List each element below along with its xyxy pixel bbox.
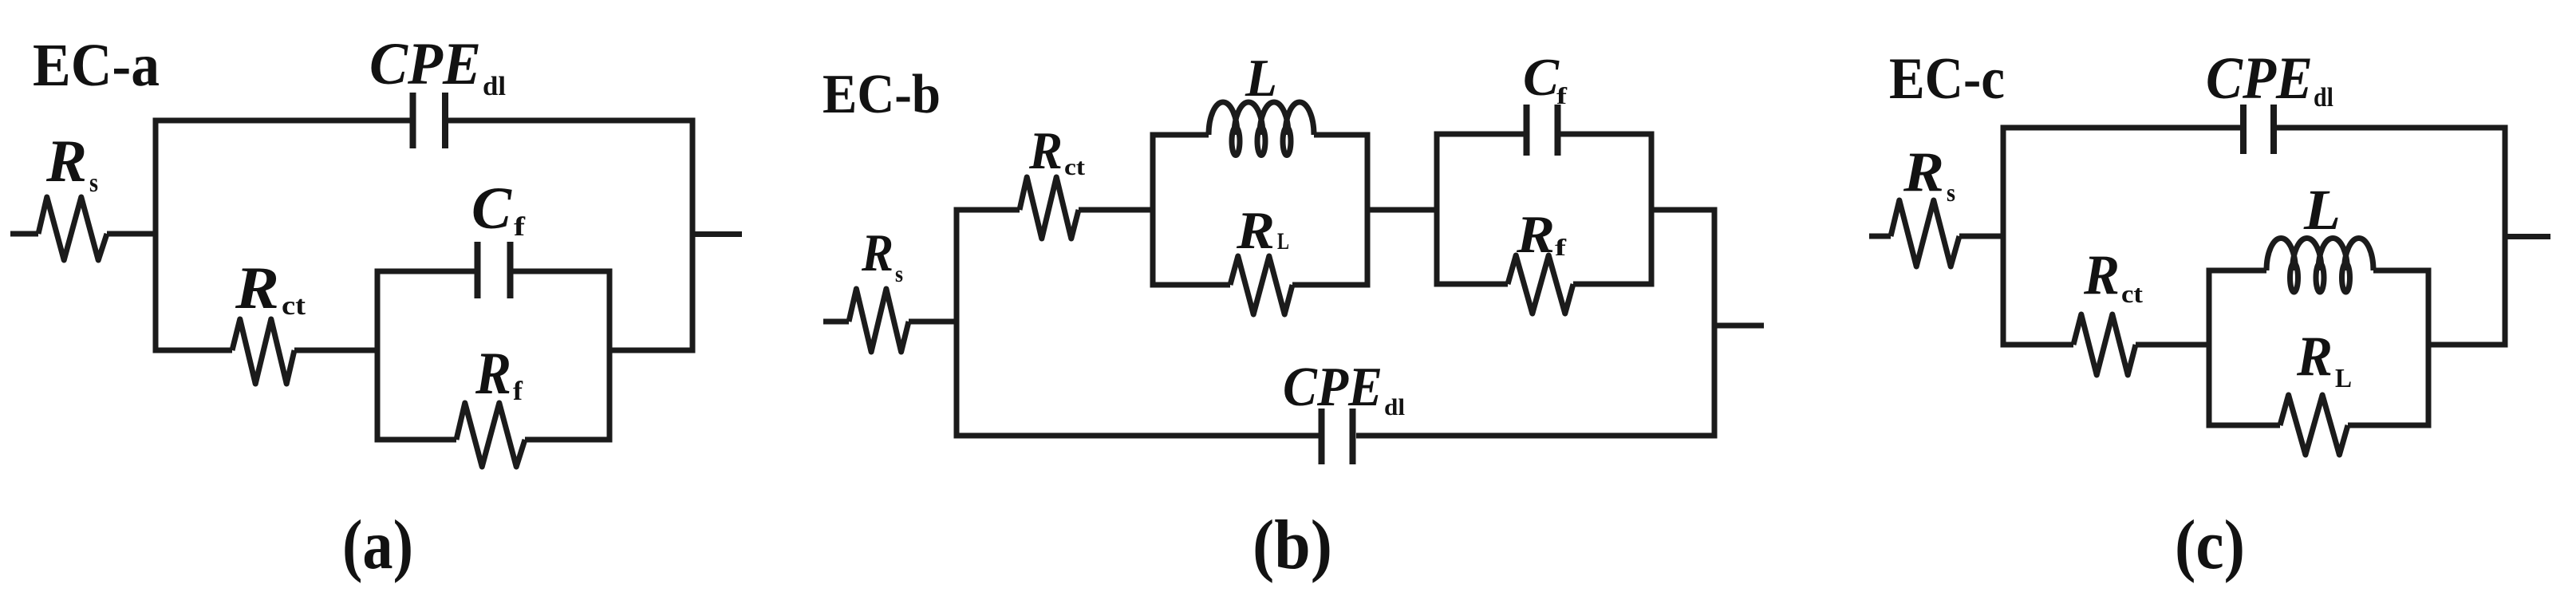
wire: top-right + right vertical (c): [2277, 128, 2505, 345]
svg-text:dl: dl: [2314, 83, 2333, 112]
wire: Rs to left node (c): [1959, 234, 2003, 239]
wire: box right half (c): [2348, 270, 2428, 425]
svg-text:CPE: CPE: [2206, 45, 2313, 112]
svg-text:L: L: [1245, 49, 1277, 108]
wire: output stub (c): [2505, 234, 2550, 239]
svg-text:(b): (b): [1252, 507, 1332, 584]
svg-text:s: s: [89, 168, 98, 198]
resistor Rs (b): [849, 289, 909, 352]
svg-text:dl: dl: [1384, 394, 1405, 420]
wire: input stub (c): [1869, 234, 1891, 239]
svg-text:ct: ct: [1064, 154, 1085, 180]
svg-text:dl: dl: [483, 72, 506, 101]
wire: box1 to box2 (b): [1367, 207, 1437, 213]
wire: inner box left half (a): [377, 271, 475, 440]
resistor RL (b): [1230, 256, 1292, 314]
svg-text:EC-a: EC-a: [33, 32, 160, 99]
svg-text:EC-b: EC-b: [823, 64, 941, 125]
svg-text:C: C: [1523, 48, 1560, 107]
wire: output stub (b): [1714, 323, 1764, 329]
svg-text:(a): (a): [342, 507, 413, 584]
capacitor CPEdl (c): [2240, 105, 2247, 154]
wire: Rct to inner box (a): [294, 348, 377, 353]
wire: box1 left half (b): [1153, 135, 1230, 285]
svg-text:R: R: [235, 255, 279, 322]
resistor Rct (c): [2073, 314, 2136, 375]
wire: right vertical + bottom-right branch (b): [1356, 210, 1714, 436]
resistor Rct (b): [1020, 177, 1079, 239]
svg-text:R: R: [861, 223, 894, 282]
svg-text:R: R: [1236, 201, 1275, 260]
capacitor Cf (b): [1524, 105, 1530, 156]
svg-text:R: R: [2083, 244, 2120, 306]
wire: left vertical + top-left branch (a): [156, 120, 410, 350]
svg-text:ct: ct: [282, 291, 306, 321]
svg-text:L: L: [1277, 228, 1289, 255]
wire: Rct to box (c): [2136, 342, 2209, 348]
wire: box2 left half (b): [1437, 134, 1524, 284]
resistor Rs (c): [1891, 200, 1959, 266]
wire: top branch + left vertical + bottom-left (b): [957, 210, 1319, 436]
capacitor CPEdl (b): [1319, 409, 1325, 464]
wire: left vertical + top-left (c): [2003, 128, 2240, 345]
svg-text:f: f: [1556, 83, 1568, 109]
svg-text:f: f: [1555, 235, 1567, 261]
svg-text:R: R: [1516, 205, 1555, 264]
wire: top-right + right vertical + bottom-right (a): [448, 120, 692, 350]
svg-text:f: f: [513, 377, 523, 406]
wire: Rs to left node (a): [107, 231, 156, 237]
wire: Rct to box1 (b): [1079, 207, 1153, 213]
svg-text:L: L: [2335, 364, 2352, 393]
svg-text:L: L: [2303, 178, 2341, 242]
svg-text:f: f: [514, 212, 526, 242]
svg-text:R: R: [1028, 121, 1063, 180]
resistor Rf (a): [456, 403, 525, 467]
svg-text:EC-c: EC-c: [1889, 46, 2005, 112]
wire: input stub (a): [10, 231, 38, 237]
svg-text:C: C: [471, 176, 512, 242]
svg-text:s: s: [895, 261, 903, 287]
svg-text:R: R: [1903, 141, 1944, 203]
wire: input stub (b): [823, 319, 849, 325]
wire: box left half (c): [2209, 270, 2280, 425]
capacitor Cf (a): [475, 242, 481, 298]
svg-text:CPE: CPE: [369, 31, 481, 97]
wire: box1 right half (b): [1292, 135, 1367, 285]
inductor L (b): [1209, 102, 1314, 135]
svg-text:(c): (c): [2175, 507, 2245, 584]
inductor L (c): [2266, 239, 2373, 270]
svg-text:ct: ct: [2121, 279, 2143, 308]
wire: box2 right half (b): [1561, 134, 1652, 284]
wire: Rs to left node (b): [909, 319, 957, 325]
svg-text:R: R: [475, 341, 511, 407]
wire: output stub (a): [692, 231, 742, 237]
resistor Rf (b): [1508, 255, 1573, 314]
resistor Rct (a): [232, 319, 294, 384]
svg-text:s: s: [1947, 178, 1955, 207]
svg-text:CPE: CPE: [1283, 357, 1383, 418]
svg-text:R: R: [2296, 326, 2333, 388]
svg-text:R: R: [45, 128, 87, 195]
resistor RL (c): [2280, 395, 2348, 455]
capacitor CPEdl (a): [410, 93, 416, 148]
resistor Rs (a): [38, 197, 107, 260]
wire: inner box right half (a): [514, 271, 610, 440]
